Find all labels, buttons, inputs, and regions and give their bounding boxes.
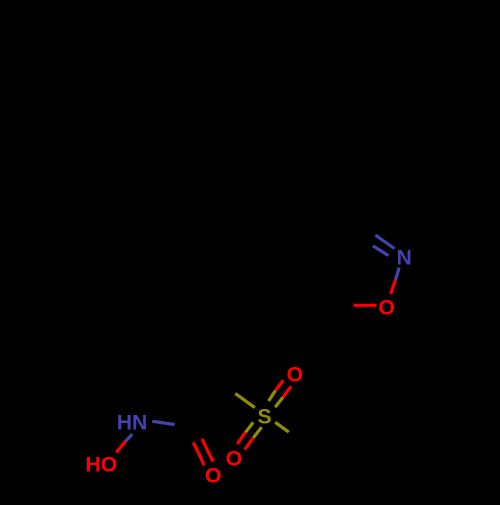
S-CH3 bond olive half — [275, 422, 289, 432]
S=O upper-right line2 red half — [283, 386, 291, 397]
isoxazole N2-O1 bond red half — [391, 280, 396, 294]
S=O lower-left line2 red half — [245, 438, 254, 450]
S=O upper-right line2 olive half — [275, 397, 283, 407]
S=O lower-left line1 red half — [237, 432, 245, 444]
isoxazole O1-C5 bond red half — [354, 304, 377, 307]
C=O carbonyl double bond right line (red half) — [202, 439, 213, 462]
S-C(alpha) bond olive half — [235, 394, 255, 408]
C=O carbonyl double bond left line (red half) — [193, 442, 204, 465]
isoxazole C3=N2 double bond (blue halves), outer line — [375, 235, 394, 249]
S=O lower-left line2 olive half — [253, 427, 261, 438]
S=O upper-right line1 olive half — [269, 391, 276, 401]
svg-text:HO: HO — [86, 454, 118, 477]
svg-text:S: S — [258, 406, 272, 429]
svg-text:O: O — [205, 464, 221, 487]
svg-text:O: O — [226, 448, 242, 471]
svg-text:HN: HN — [117, 412, 148, 435]
N-OH bond blue half — [125, 434, 132, 442]
S=O lower-left line1 olive half — [246, 422, 254, 432]
amide N-C bond blue half — [152, 421, 174, 424]
isoxazole C3=N2 double bond inner line — [373, 246, 389, 256]
svg-text:N: N — [397, 247, 412, 270]
N-OH bond red half — [116, 442, 125, 453]
svg-text:O: O — [379, 297, 395, 320]
S=O upper-right line1 red half — [275, 380, 283, 390]
isoxazole N2-O1 bond blue half — [395, 268, 399, 281]
svg-text:O: O — [287, 364, 303, 387]
